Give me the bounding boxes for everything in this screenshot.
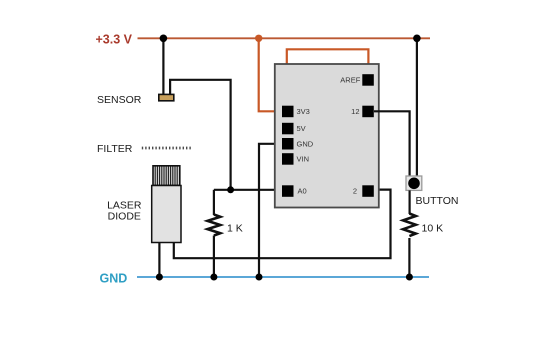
pin VIN <box>282 153 294 165</box>
node gnd-board <box>256 274 263 281</box>
GND rail <box>137 276 429 278</box>
svg-text:FILTER: FILTER <box>97 143 133 155</box>
resistor R2 10K <box>403 190 416 277</box>
node rail-sensor <box>160 35 168 43</box>
svg-text:12: 12 <box>351 107 359 116</box>
sensor body <box>159 94 174 100</box>
laser diode body <box>152 186 181 243</box>
node gnd-10K <box>406 274 413 281</box>
svg-text:2: 2 <box>353 187 357 196</box>
wire A0 <box>214 189 282 191</box>
wire rail to sensor <box>162 38 164 95</box>
node gnd-laser <box>156 274 163 281</box>
svg-text:SENSOR: SENSOR <box>97 94 142 106</box>
svg-text:VIN: VIN <box>297 155 310 164</box>
svg-text:A0: A0 <box>298 187 307 196</box>
svg-text:1 K: 1 K <box>227 223 243 235</box>
svg-text:10 K: 10 K <box>422 223 444 235</box>
orange wire rail to 3V3 <box>259 38 282 111</box>
node gnd-1K <box>210 274 217 281</box>
pin A0 <box>282 185 294 197</box>
filter dotted line <box>142 147 193 150</box>
node rail-3V3 (orange) <box>255 35 262 42</box>
wire laser right leg to pin 2 <box>174 190 391 259</box>
svg-text:AREF: AREF <box>340 76 360 85</box>
resistor R1 1K <box>207 190 220 277</box>
node A0 junction <box>227 186 234 193</box>
wire pin 12 to button <box>374 111 410 176</box>
svg-text:BUTTON: BUTTON <box>416 195 459 207</box>
+3.3V rail <box>138 37 431 39</box>
orange wire 3V3 to AREF <box>287 49 369 105</box>
svg-text:3V3: 3V3 <box>297 107 310 116</box>
svg-text:GND: GND <box>297 139 314 148</box>
button S1 <box>406 176 422 190</box>
pin AREF <box>362 74 374 86</box>
wire sensor to A0 node <box>170 80 231 190</box>
wire GND pin <box>259 144 282 277</box>
pin 12 <box>362 106 374 118</box>
pin GND <box>282 138 294 150</box>
node rail-button <box>413 35 421 43</box>
svg-text:+3.3 V: +3.3 V <box>96 33 133 47</box>
svg-text:GND: GND <box>100 271 128 285</box>
board U1 <box>275 64 379 208</box>
wire laser left leg to GND <box>158 243 160 278</box>
laser diode cap <box>153 166 180 186</box>
svg-text:5V: 5V <box>297 124 306 133</box>
svg-text:DIODE: DIODE <box>108 210 141 222</box>
wire rail to button <box>416 38 418 176</box>
pin 3V3 <box>282 106 294 118</box>
pin 5V <box>282 123 294 135</box>
pin 2 <box>362 185 374 197</box>
